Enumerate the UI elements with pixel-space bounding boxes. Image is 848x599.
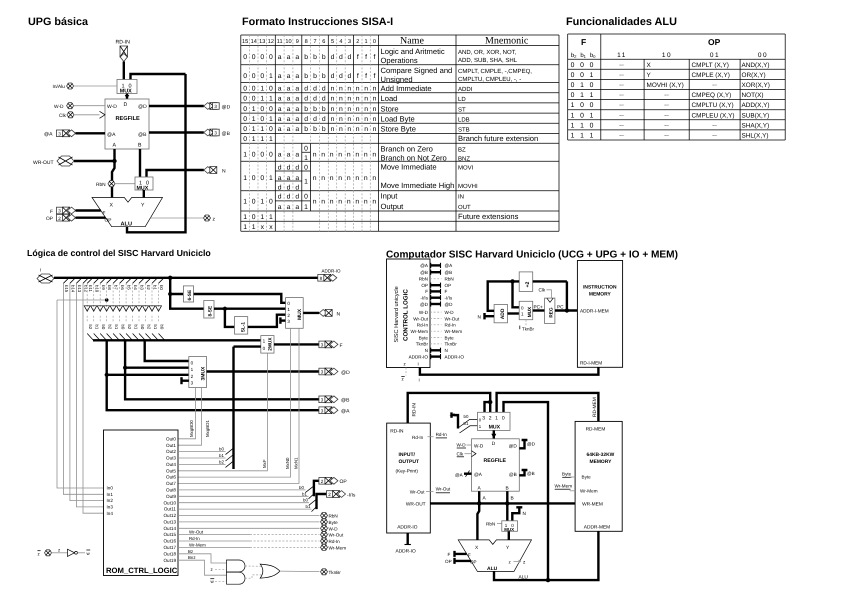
svg-text:n: n: [331, 96, 335, 103]
svg-text:15: 15: [242, 39, 248, 45]
svg-text:n: n: [364, 126, 368, 133]
svg-text:b0: b0: [101, 325, 106, 330]
wire A down: [112, 149, 115, 198]
svg-text:n: n: [339, 106, 343, 113]
svg-text:0: 0: [260, 73, 264, 80]
svg-text:Out4: Out4: [166, 462, 176, 467]
svg-text:n: n: [364, 152, 368, 159]
svg-text:b0: b0: [219, 447, 224, 452]
svg-text:Byte: Byte: [582, 475, 592, 480]
svg-text:Out16: Out16: [163, 539, 176, 544]
svg-text:OUTPUT: OUTPUT: [399, 459, 420, 465]
wire TknBr: [280, 570, 320, 573]
svg-text:Y: Y: [141, 203, 145, 209]
svg-text:Out14: Out14: [163, 526, 176, 531]
svg-text:d: d: [322, 86, 326, 93]
svg-text:WR-MEM: WR-MEM: [582, 502, 603, 508]
svg-text:2: 2: [58, 216, 61, 221]
svg-text:1: 1: [495, 415, 498, 421]
svg-text:NOT(X): NOT(X): [742, 92, 764, 99]
wire ALU W feedback: [127, 74, 186, 232]
svg-text:@B: @B: [341, 398, 350, 404]
wire MUX4 in3 stub: [280, 319, 285, 321]
wire Out11 Wz b1: [178, 508, 312, 510]
svg-text:d: d: [287, 185, 291, 192]
wire select MxN1: [178, 328, 299, 483]
svg-text:--·: --·: [664, 113, 670, 119]
wire PC+ to REG: [533, 309, 545, 311]
svg-text:0: 0: [243, 136, 247, 143]
svg-text:ST: ST: [458, 106, 466, 113]
connector RbN: [108, 181, 115, 187]
svg-text:0: 0: [590, 62, 594, 69]
mnemonic column: [458, 49, 532, 211]
wire Clk: [74, 114, 100, 116]
svg-text:d: d: [331, 54, 335, 61]
svg-text:a: a: [295, 96, 299, 103]
svg-text:ADDI: ADDI: [458, 86, 473, 93]
svg-text:1: 1: [252, 136, 256, 143]
wire Out10 Wz b0: [178, 502, 309, 504]
svg-text:1: 1: [243, 214, 247, 221]
svg-text:1: 1: [269, 116, 273, 123]
wire F: [76, 209, 101, 211]
svg-text:n: n: [347, 106, 351, 113]
wire 6-SE out to MUX4 in0: [194, 294, 286, 303]
svg-text:0: 0: [260, 106, 264, 113]
svg-text:1: 1: [580, 133, 584, 140]
svg-text:2: 2: [356, 39, 359, 45]
svg-text:0: 0: [269, 199, 273, 206]
svg-text:n: n: [373, 96, 377, 103]
svg-text:Out12: Out12: [163, 513, 176, 518]
svg-text:a: a: [278, 152, 282, 159]
svg-text:Out2: Out2: [166, 449, 176, 454]
svg-text:@B: @B: [222, 131, 231, 137]
svg-text:TknBr: TknBr: [522, 327, 535, 332]
svg-text:b: b: [304, 54, 308, 61]
svg-text:n: n: [330, 175, 334, 182]
svg-text:3: 3: [287, 319, 290, 324]
svg-text:RD-IN: RD-IN: [116, 40, 131, 46]
svg-text:1: 1: [269, 136, 273, 143]
wire N output: [303, 312, 319, 314]
svg-text:n: n: [355, 199, 359, 206]
svg-text:Out8: Out8: [166, 488, 176, 493]
svg-text:b15: b15: [64, 285, 69, 293]
svg-text:BZ: BZ: [458, 147, 466, 154]
svg-text:a: a: [287, 106, 291, 113]
svg-text:n: n: [373, 106, 377, 113]
buffer for instruction bit b3: [139, 278, 145, 284]
svg-text:8: 8: [305, 39, 308, 45]
svg-text:-I/Is: -I/Is: [347, 492, 356, 498]
svg-text:Rd-In: Rd-In: [436, 432, 448, 437]
svg-text:00: 00: [758, 52, 768, 59]
wire tap instruction bit to ROM In3: [76, 278, 82, 284]
svg-text:n: n: [313, 199, 317, 206]
svg-text:6: 6: [322, 39, 325, 45]
svg-text:0: 0: [243, 126, 247, 133]
svg-text:N: N: [445, 348, 448, 353]
svg-text:0: 0: [502, 415, 505, 421]
svg-text:1: 1: [260, 86, 264, 93]
wire field a rip to @A and 3MUX in2: [107, 340, 320, 410]
svg-text:a: a: [295, 204, 299, 211]
svg-text:b1: b1: [95, 325, 100, 330]
svg-text:N: N: [425, 348, 428, 353]
buffer for instruction bit b11: [87, 278, 93, 284]
svg-text:b1: b1: [302, 491, 307, 496]
svg-text:Wr-Mem: Wr-Mem: [329, 545, 347, 550]
svg-text:d: d: [304, 96, 308, 103]
connector OP (numbox 2): [57, 214, 76, 221]
svg-text:RbN: RbN: [445, 277, 454, 282]
svg-text:Clk: Clk: [539, 288, 546, 293]
svg-text:@D: @D: [341, 370, 350, 376]
svg-text:In/Alu: In/Alu: [53, 84, 66, 90]
svg-text:CMPEQ (X,Y): CMPEQ (X,Y): [692, 92, 732, 99]
svg-text:F: F: [425, 289, 428, 294]
svg-text:0: 0: [252, 152, 256, 159]
svg-text:b0: b0: [299, 485, 304, 490]
connector ADDR-IO (numbox 8): [318, 274, 337, 281]
buffer for instruction bit b0: [159, 278, 165, 284]
svg-text:INPUT/: INPUT/: [399, 452, 416, 458]
svg-text:Out0: Out0: [166, 436, 176, 441]
wire RD-IN up to mux: [408, 393, 491, 423]
svg-text:b1: b1: [153, 325, 158, 330]
svg-text:a: a: [278, 175, 282, 182]
svg-text:b0: b0: [140, 325, 145, 330]
control logic block: [387, 259, 431, 368]
svg-text:d: d: [304, 86, 308, 93]
svg-text:MxN1: MxN1: [294, 457, 299, 469]
svg-text:F: F: [445, 289, 448, 294]
svg-text:n: n: [347, 116, 351, 123]
wire field b rip to @B and 3MUX in1: [125, 340, 319, 399]
svg-text:Byte: Byte: [419, 335, 429, 340]
wire z out: [150, 217, 203, 219]
svg-text:b0: b0: [303, 498, 308, 503]
svg-text:b11: b11: [88, 285, 93, 292]
block 8-SE sign extender: [204, 301, 214, 319]
svg-text:Bnz: Bnz: [188, 555, 196, 560]
svg-text:a: a: [287, 175, 291, 182]
svg-text:Wr-Out: Wr-Out: [410, 489, 425, 494]
svg-text:0: 0: [260, 175, 264, 182]
connector Clk: [67, 112, 74, 118]
svg-text:--·: --·: [619, 93, 625, 99]
junction +2 to mux0: [510, 279, 514, 283]
svg-text:d: d: [304, 116, 308, 123]
svg-text:In4: In4: [107, 511, 114, 516]
svg-text:@D: @D: [138, 104, 147, 110]
svg-text:In0: In0: [107, 486, 114, 491]
svg-text:n: n: [372, 175, 376, 182]
svg-text:1: 1: [243, 175, 247, 182]
svg-text:Store Byte: Store Byte: [381, 125, 416, 134]
svg-text:TknBr: TknBr: [416, 342, 429, 347]
svg-text:3: 3: [58, 132, 61, 137]
svg-text:n: n: [347, 96, 351, 103]
wire Out3 F bit b1: [178, 457, 226, 459]
svg-text:d: d: [295, 165, 299, 172]
svg-text:a: a: [287, 86, 291, 93]
svg-text:OP: OP: [421, 283, 428, 288]
buffer for instruction bit b7: [113, 278, 119, 284]
svg-text:@D: @D: [420, 302, 429, 307]
connector RD-IN (vertical X-box + diamond): [120, 46, 128, 62]
svg-text:Out17: Out17: [163, 545, 176, 550]
svg-text:1: 1: [252, 116, 256, 123]
wire Out12 RbN: [178, 515, 320, 517]
connector @A (numbox 3 + X + diamond): [57, 130, 76, 137]
alu ALU: [458, 540, 531, 572]
svg-text:d: d: [348, 54, 352, 61]
svg-text:b10: b10: [94, 285, 99, 293]
svg-text:1: 1: [590, 92, 594, 99]
wire RD-IN to MUX input1: [123, 62, 125, 80]
svg-text:Wr-Mem: Wr-Mem: [555, 484, 573, 489]
wire AND2 to OR: [245, 575, 262, 578]
svg-text:F: F: [103, 211, 106, 217]
svg-text:Rd-In: Rd-In: [445, 323, 457, 328]
svg-text:B: B: [511, 496, 514, 502]
svg-text:--·: --·: [664, 123, 670, 129]
svg-text:n: n: [339, 116, 343, 123]
svg-text:a: a: [295, 54, 299, 61]
svg-text:Store: Store: [381, 104, 399, 113]
port Rd-In io: [428, 436, 434, 438]
svg-text:LDB: LDB: [458, 116, 470, 123]
svg-text:W-D: W-D: [419, 310, 429, 315]
svg-text:OR(X,Y): OR(X,Y): [742, 72, 766, 79]
svg-text:0: 0: [571, 62, 575, 69]
svg-text:b0: b0: [464, 414, 469, 419]
svg-text:Out11: Out11: [164, 507, 177, 512]
svg-text:Output: Output: [381, 202, 405, 211]
svg-text:1: 1: [260, 126, 264, 133]
connector TknBr: [321, 569, 328, 575]
svg-text:b1: b1: [133, 325, 138, 330]
svg-text:0: 0: [243, 54, 247, 61]
svg-text:Input: Input: [381, 192, 399, 201]
svg-text:-I/Is: -I/Is: [420, 296, 428, 301]
svg-text:0: 0: [269, 126, 273, 133]
svg-text:B: B: [506, 486, 509, 492]
wire Out19 Bnz to AND2: [178, 560, 227, 575]
svg-text:CMPLT (X,Y): CMPLT (X,Y): [692, 62, 729, 69]
node @B stub: [519, 470, 527, 475]
svg-text:Y: Y: [647, 72, 652, 79]
svg-text:0: 0: [287, 301, 290, 306]
svg-text:Logic and Aritmetic: Logic and Aritmetic: [381, 47, 445, 56]
wire WR-OUT to WR-MEM: [430, 502, 575, 504]
svg-text:b2: b2: [219, 459, 224, 464]
svg-text:13: 13: [259, 39, 265, 45]
svg-text:0: 0: [571, 72, 575, 79]
svg-text:--·: --·: [664, 103, 670, 109]
svg-text:Wr-Out: Wr-Out: [436, 487, 451, 492]
svg-text:n: n: [321, 199, 325, 206]
wire Out9 OP b1: [178, 495, 309, 497]
svg-text:F: F: [468, 553, 471, 558]
svg-text:ROM_CTRL_LOGIC: ROM_CTRL_LOGIC: [106, 566, 178, 575]
svg-text:b7: b7: [114, 285, 119, 290]
svg-text:A: A: [113, 143, 117, 149]
svg-text:3: 3: [58, 209, 61, 214]
svg-text:--·: --·: [619, 62, 625, 68]
svg-text:f: f: [373, 54, 375, 61]
svg-text:n: n: [356, 126, 360, 133]
mux U4 MUX for N: [286, 298, 304, 329]
svg-text:ADDR-IO: ADDR-IO: [322, 269, 341, 274]
svg-text:MEMORY: MEMORY: [589, 292, 612, 298]
svg-text:Unsigned: Unsigned: [381, 75, 413, 84]
regfile REGFILE box: [105, 99, 149, 149]
svg-text:3MUX: 3MUX: [201, 366, 207, 381]
wire tap instruction bit b12 to ROM In4: [83, 278, 89, 284]
svg-text:n: n: [313, 175, 317, 182]
wire @D out: [149, 105, 204, 107]
buffer for instruction bit b8: [107, 278, 113, 284]
wire mux to ALU Y: [508, 531, 510, 540]
svg-text:@B: @B: [445, 270, 453, 275]
svg-text:0: 0: [260, 116, 264, 123]
svg-text:n: n: [355, 152, 359, 159]
wire OP: [76, 216, 106, 218]
header bit numbers: [242, 39, 376, 45]
svg-text:b1: b1: [153, 285, 158, 290]
regfile block: [472, 439, 520, 492]
instruction memory block: [577, 261, 622, 368]
svg-text:In1: In1: [107, 492, 114, 497]
svg-text:2: 2: [328, 492, 331, 497]
svg-text:1: 1: [304, 179, 308, 186]
svg-text:@B: @B: [509, 472, 517, 477]
svg-text:Wr-Out: Wr-Out: [329, 533, 344, 538]
svg-text:Bz: Bz: [188, 549, 193, 554]
svg-text:f: f: [357, 73, 359, 80]
svg-text:Out13: Out13: [163, 520, 176, 525]
svg-text:3: 3: [321, 398, 324, 403]
svg-text:SHA(X,Y): SHA(X,Y): [742, 122, 770, 129]
wire select MxgBD0: [178, 388, 196, 439]
svg-text:3: 3: [214, 131, 217, 136]
svg-text:ADDR-IO: ADDR-IO: [396, 549, 417, 555]
buffer for instruction bit b10: [94, 278, 100, 284]
svg-text:1: 1: [571, 112, 575, 119]
svg-text:n: n: [339, 86, 343, 93]
svg-text:Wr-Mem: Wr-Mem: [445, 329, 463, 334]
svg-text:Rd-In: Rd-In: [412, 435, 424, 440]
svg-text:+2: +2: [525, 281, 531, 287]
svg-text:n: n: [356, 106, 360, 113]
wire ALU out to ADDR-MEM: [494, 531, 598, 580]
svg-text:LD: LD: [458, 96, 466, 103]
svg-text:@D: @D: [445, 302, 454, 307]
connector N out: [319, 310, 332, 317]
svg-text:3: 3: [214, 104, 217, 109]
svg-text:n: n: [330, 199, 334, 206]
svg-text:n: n: [331, 106, 335, 113]
connector F (numbox 3): [57, 207, 76, 214]
svg-text:12: 12: [268, 39, 274, 45]
svg-text:IN: IN: [458, 194, 464, 201]
svg-text:ALU: ALU: [121, 222, 133, 228]
svg-text:Lógica de control del SISC Har: Lógica de control del SISC Harvard Unici…: [27, 248, 211, 258]
svg-text:0: 0: [269, 86, 273, 93]
svg-text:1: 1: [260, 214, 264, 221]
svg-text:1: 1: [590, 133, 594, 140]
svg-text:1: 1: [590, 72, 594, 79]
svg-text:n: n: [364, 106, 368, 113]
svg-text:@A: @A: [474, 472, 483, 477]
svg-text:SUB(X,Y): SUB(X,Y): [742, 112, 770, 119]
svg-text:W-D: W-D: [329, 526, 339, 531]
buffer for instruction bit b4: [133, 278, 139, 284]
connector @B out: [204, 129, 219, 136]
svg-text:Out15: Out15: [163, 532, 176, 537]
svg-text:0: 0: [580, 112, 584, 119]
svg-text:Compare Signed and: Compare Signed and: [381, 66, 453, 75]
row bits: [243, 54, 376, 231]
svg-text:WR-OUT: WR-OUT: [33, 160, 54, 166]
svg-text:n: n: [339, 96, 343, 103]
connector z: [204, 215, 211, 221]
svg-text:a: a: [278, 204, 282, 211]
svg-text:n: n: [372, 152, 376, 159]
svg-text:d: d: [287, 194, 291, 201]
svg-text:INSTRUCTION: INSTRUCTION: [583, 285, 617, 291]
svg-text:@D: @D: [222, 104, 231, 110]
svg-text:n: n: [347, 152, 351, 159]
svg-text:D: D: [124, 102, 128, 108]
svg-text:n: n: [364, 199, 368, 206]
svg-text:RbN: RbN: [96, 182, 106, 188]
svg-text:1: 1: [263, 338, 266, 343]
connector F out: [319, 341, 338, 348]
svg-text:W-D: W-D: [445, 310, 455, 315]
buffer for instruction bit b5: [126, 278, 132, 284]
wire ADD out to mux in1: [508, 312, 520, 314]
svg-text:n: n: [347, 175, 351, 182]
svg-text:MxN0: MxN0: [285, 457, 290, 469]
wire 8-SE out to MUX4 in1: [214, 308, 286, 310]
connector I (big hex X): [37, 274, 54, 283]
buffer for instruction bit b2: [146, 278, 152, 284]
svg-text:0: 0: [263, 346, 266, 351]
svg-text:Branch future extension: Branch future extension: [458, 134, 538, 143]
svg-text:01: 01: [710, 52, 720, 59]
svg-text:1: 1: [243, 199, 247, 206]
svg-text:ADDR-IO: ADDR-IO: [409, 354, 429, 359]
wire ADDR-IO stub: [407, 533, 409, 545]
svg-text:a: a: [278, 116, 282, 123]
svg-text:RD-IN: RD-IN: [390, 429, 404, 435]
svg-text:b2: b2: [107, 325, 112, 330]
wire select MxN0: [178, 328, 291, 477]
svg-text:1: 1: [287, 307, 290, 312]
svg-text:Name: Name: [400, 36, 424, 47]
svg-text:Wr-Out: Wr-Out: [189, 530, 204, 535]
svg-text:Clk: Clk: [457, 451, 464, 456]
svg-text:a: a: [287, 96, 291, 103]
wire PC out: [555, 309, 578, 311]
svg-text:0: 0: [269, 106, 273, 113]
svg-text:@B: @B: [527, 471, 535, 476]
